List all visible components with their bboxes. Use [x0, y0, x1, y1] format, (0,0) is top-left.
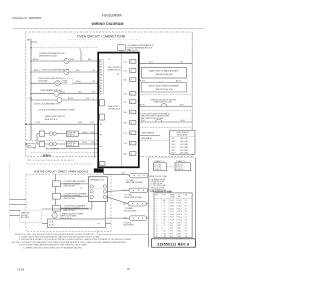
svg-text:P24-7: P24-7 [170, 217, 174, 219]
svg-text:P24-9: P24-9 [170, 222, 174, 224]
svg-text:W-41: W-41 [181, 120, 185, 122]
svg-text:N2: N2 [100, 91, 102, 93]
svg-text:W-2: W-2 [76, 70, 79, 72]
svg-text:P24-4: P24-4 [170, 208, 174, 210]
svg-text:Y-53: Y-53 [123, 203, 127, 205]
svg-text:TB-N: TB-N [178, 203, 182, 205]
svg-text:P9-4: P9-4 [170, 234, 173, 236]
junction [30, 47, 31, 48]
svg-text:13/18: 13/18 [17, 267, 24, 271]
svg-text:P5: P5 [100, 134, 102, 136]
svg-text:Y-52: Y-52 [123, 190, 127, 192]
svg-text:BK-7: BK-7 [88, 59, 92, 61]
svg-text:20: 20 [130, 154, 132, 156]
svg-text:K5: K5 [100, 72, 102, 74]
svg-text:BK-70: BK-70 [140, 105, 145, 107]
svg-text:(SEE NOTE 2): (SEE NOTE 2) [45, 119, 58, 121]
junction ticks on dashed edge [25, 123, 27, 125]
svg-text:P2: P2 [130, 61, 132, 63]
svg-text:120V 40W: 120V 40W [38, 81, 47, 83]
svg-text:- - - - -: - - - - - [158, 80, 163, 82]
wire dashed under title [68, 38, 140, 40]
svg-text:N1 P2 R3: N1 P2 R3 [176, 164, 183, 166]
dashed wire 2 [139, 110, 192, 112]
svg-text:4: 4 [93, 98, 94, 100]
chain wire [55, 174, 57, 213]
svg-text:G-33: G-33 [36, 122, 40, 124]
svg-text:3 P5: 3 P5 [92, 92, 96, 94]
broil element box [141, 83, 186, 92]
P24 connector box above control [118, 45, 125, 51]
svg-text:P24-2: P24-2 [170, 203, 174, 205]
svg-text:(SEE NOTE A) 3.3A: (SEE NOTE A) 3.3A [155, 73, 173, 76]
left lower connector boxes [100, 100, 105, 106]
svg-text:P24-5: P24-5 [170, 211, 174, 213]
svg-text:Y-54: Y-54 [123, 61, 126, 63]
svg-text:14: 14 [185, 203, 187, 205]
capsule connector 4 [129, 216, 146, 221]
svg-text:BK-2: BK-2 [28, 146, 32, 148]
svg-text:B4: B4 [100, 69, 102, 71]
wire from row6 down [94, 124, 96, 158]
inner spine [120, 54, 122, 167]
svg-text:18: 18 [130, 143, 132, 145]
svg-text:Y-54: Y-54 [124, 218, 128, 220]
svg-text:S1: S1 [100, 61, 102, 63]
svg-text:BU: BU [164, 231, 166, 233]
capsule connector 2 [129, 188, 148, 193]
svg-text:BK: BK [164, 200, 166, 202]
svg-text:SW-2: SW-2 [178, 228, 182, 230]
svg-text:BK/WH: BK/WH [43, 155, 51, 157]
dashed wire [139, 94, 192, 96]
svg-text:W-12: W-12 [76, 81, 80, 83]
svg-text:18: 18 [185, 211, 187, 213]
wire item3 to block [61, 207, 89, 209]
svg-text:5: 5 [156, 211, 157, 213]
svg-text:Publication No. 5995478979: Publication No. 5995478979 [13, 17, 43, 20]
svg-text:G7 H8 J9: G7 H8 J9 [154, 169, 161, 171]
wire row 4 [31, 93, 98, 95]
svg-text:6. SPARK IGNITION SWITCHES ON: 6. SPARK IGNITION SWITCHES ON TOP BURNER… [23, 246, 82, 249]
svg-text:BU-22: BU-22 [68, 98, 73, 100]
svg-text:N-2 W: N-2 W [49, 225, 54, 227]
svg-text:18: 18 [185, 236, 187, 238]
svg-text:1 P5: 1 P5 [92, 70, 96, 72]
bake circuit wire [139, 63, 192, 65]
svg-text:LOCK MOTOR SWITCH SHOWN LOCKED: LOCK MOTOR SWITCH SHOWN LOCKED [38, 110, 75, 112]
svg-text:LIGHT: LIGHT [62, 83, 67, 85]
svg-text:9: 9 [156, 222, 157, 224]
svg-text:FROM: FROM [170, 194, 175, 196]
svg-text:FGGS3045KF: FGGS3045KF [102, 14, 122, 18]
svg-text:BK-41: BK-41 [60, 92, 65, 94]
svg-text:P3: P3 [100, 124, 102, 126]
dashed option box [62, 79, 73, 85]
door switch branch [36, 134, 38, 144]
svg-text:Y-52: Y-52 [123, 71, 126, 73]
svg-text:P24-3: P24-3 [170, 206, 174, 208]
svg-text:6: 6 [156, 214, 157, 216]
svg-text:4: 4 [156, 208, 157, 210]
svg-text:P4: P4 [130, 71, 132, 73]
wire right edge emphasis [191, 32, 193, 157]
svg-text:G8: G8 [100, 80, 102, 82]
wire stub [31, 41, 37, 43]
surface ignitor 1 [53, 181, 61, 187]
svg-text:P7: P7 [100, 146, 102, 148]
svg-text:G-33: G-33 [78, 122, 82, 124]
main oven circuit dashed enclosure [26, 32, 193, 157]
bake element box [141, 67, 186, 78]
spark module box [48, 219, 106, 228]
svg-text:SW-3: SW-3 [178, 231, 182, 233]
svg-text:V7 W8 X9: V7 W8 X9 [176, 169, 183, 171]
wires to capsule connectors [104, 173, 128, 175]
wires below control board [103, 167, 105, 174]
svg-text:BU-1: BU-1 [123, 154, 127, 156]
wire row 2 [31, 71, 98, 73]
svg-text:BU: BU [164, 211, 166, 213]
surface ignitor 3 [53, 205, 61, 211]
switch S1 [37, 133, 98, 135]
svg-text:MODULE WIRE: MODULE WIRE [124, 210, 137, 212]
right pin boxes [130, 60, 136, 156]
svg-text:P24-8: P24-8 [170, 220, 174, 222]
svg-text:Y: Y [164, 228, 165, 230]
svg-text:WIRING DIAGRAM: WIRING DIAGRAM [91, 22, 123, 26]
short rows [139, 135, 160, 137]
svg-text:900 F: 900 F [172, 153, 176, 155]
svg-text:P6: P6 [130, 80, 132, 82]
svg-text:GN: GN [164, 214, 166, 216]
svg-text:P7: P7 [98, 224, 100, 226]
svg-text:OR-31: OR-31 [82, 142, 87, 144]
svg-text:11: 11 [156, 228, 158, 230]
svg-text:(SEE NOTE 6): (SEE NOTE 6) [64, 210, 76, 212]
pin number labels [123, 61, 132, 155]
wire left bus [30, 39, 32, 141]
lamp L1 [55, 81, 60, 86]
svg-text:SW-4: SW-4 [178, 234, 182, 236]
symbol row5 [57, 98, 62, 103]
svg-text:R-40: R-40 [141, 120, 145, 122]
wire boxlet to module [42, 223, 48, 225]
svg-text:16: 16 [130, 133, 132, 135]
svg-text:2697 OHM: 2697 OHM [180, 153, 188, 155]
svg-text:16: 16 [185, 206, 187, 208]
svg-text:14: 14 [130, 122, 132, 124]
dashed wire 3 [139, 126, 192, 128]
svg-text:GY-8: GY-8 [123, 143, 127, 145]
svg-text:BROIL IGNITOR BROIL BURNER: BROIL IGNITOR BROIL BURNER [149, 85, 180, 87]
svg-text:Y7: Y7 [100, 77, 102, 79]
svg-text:5 P9: 5 P9 [91, 142, 95, 144]
svg-text:5. DOOR SWITCHES ARE SHOWN WIT: 5. DOOR SWITCHES ARE SHOWN WITH THE OVEN… [19, 244, 88, 247]
wire row 6 [26, 123, 98, 125]
svg-text:DOOR LOCK ASSEMBLY P24: DOOR LOCK ASSEMBLY P24 [34, 103, 60, 106]
svg-text:OVEN SENSOR: OVEN SENSOR [141, 133, 155, 135]
svg-text:EOC-5: EOC-5 [178, 217, 183, 219]
wire item2 to block [61, 195, 89, 197]
svg-text:SW-5: SW-5 [178, 236, 182, 238]
wire module out [106, 223, 112, 225]
wire dashed feeder [31, 47, 98, 49]
svg-text:S4 T5 U6: S4 T5 U6 [176, 167, 183, 169]
svg-text:BU-3: BU-3 [123, 80, 127, 82]
svg-text:BOARD (EOC): BOARD (EOC) [108, 68, 121, 71]
svg-text:P9 1 - 2 - 3 - 4 - 5 - 6 - 7: P9 1 - 2 - 3 - 4 - 5 - 6 - 7 - 8 - 9 - 1… [28, 160, 74, 162]
motor M2 [64, 69, 69, 74]
svg-text:(SEE NOTE 6): (SEE NOTE 6) [64, 186, 76, 188]
svg-text:Y-54: Y-54 [127, 49, 131, 51]
svg-text:(SEE TABLE): (SEE TABLE) [141, 137, 152, 140]
svg-text:2237 OHM: 2237 OHM [180, 150, 188, 152]
internal dashed separator [26, 140, 98, 142]
svg-text:EOC-4: EOC-4 [178, 214, 183, 216]
svg-text:SW-1: SW-1 [178, 225, 182, 227]
svg-text:3: 3 [156, 206, 157, 208]
header rule [13, 28, 204, 29]
svg-text:R-67: R-67 [70, 59, 74, 61]
svg-text:GN: GN [164, 234, 166, 236]
svg-text:EOC-6: EOC-6 [178, 220, 183, 222]
svg-text:R3: R3 [100, 67, 102, 69]
svg-text:T4 T5 B6: T4 T5 B6 [154, 167, 161, 169]
svg-text:10: 10 [156, 225, 158, 227]
lists frame [148, 158, 150, 247]
svg-text:Y-54: Y-54 [149, 62, 153, 64]
svg-text:(SEE NOTE 6): (SEE NOTE 6) [64, 198, 76, 200]
svg-text:550 F: 550 F [172, 147, 176, 149]
svg-text:W-4: W-4 [78, 92, 81, 94]
svg-text:Y: Y [164, 208, 165, 210]
svg-text:1 P9: 1 P9 [90, 122, 94, 124]
left pin strip [100, 59, 104, 93]
svg-text:3 P9: 3 P9 [91, 132, 95, 134]
capsule exit wires [147, 175, 150, 177]
svg-text:W-75: W-75 [180, 105, 184, 107]
svg-text:13: 13 [156, 234, 158, 236]
svg-text:(NOTE 5): (NOTE 5) [67, 135, 75, 137]
svg-text:2 P5: 2 P5 [92, 81, 96, 83]
svg-text:P1: P1 [117, 74, 119, 76]
svg-text:8: 8 [156, 220, 157, 222]
svg-text:W-2: W-2 [123, 102, 126, 104]
svg-text:R-9: R-9 [86, 98, 89, 100]
svg-text:BAKE IGNITOR WIRE: BAKE IGNITOR WIRE [126, 181, 144, 184]
svg-text:14: 14 [185, 200, 187, 202]
svg-text:DSI MODULE: DSI MODULE [108, 109, 121, 111]
electronic oven control outline [98, 53, 139, 168]
svg-text:18: 18 [185, 234, 187, 236]
svg-text:W6: W6 [100, 75, 103, 77]
notes paragraph [12, 234, 132, 250]
wire L1 drop [80, 50, 82, 61]
surface ignitor 2 [53, 193, 61, 199]
motor M1 [64, 58, 69, 63]
svg-text:P9-1: P9-1 [170, 225, 173, 227]
svg-text:P9-2: P9-2 [170, 228, 173, 230]
svg-text:EOC-7: EOC-7 [178, 222, 183, 224]
connector label box [27, 144, 36, 148]
svg-text:G-2: G-2 [33, 147, 36, 149]
terminal block TB1 [88, 177, 107, 202]
surface ignitor 4 [52, 213, 57, 218]
part number box [152, 239, 196, 247]
wires bottom ignitor [42, 208, 92, 210]
svg-text:18: 18 [185, 214, 187, 216]
svg-text:18: 18 [185, 217, 187, 219]
svg-text:O2: O2 [100, 64, 102, 66]
wire row 5 [31, 99, 98, 101]
svg-text:18: 18 [185, 225, 187, 227]
svg-text:BK-64: BK-64 [33, 59, 38, 61]
wire row 1 [31, 60, 98, 62]
svg-text:318550111 REV:A: 318550111 REV:A [157, 242, 190, 246]
svg-text:1080 OHM: 1080 OHM [180, 138, 188, 140]
svg-text:BK: BK [164, 220, 166, 222]
wire block drops [91, 202, 93, 210]
svg-text:(SEE NOTE A) 3.3A: (SEE NOTE A) 3.3A [155, 88, 173, 91]
svg-text:Y-55: Y-55 [179, 62, 183, 64]
wire dashed row [31, 151, 98, 153]
svg-text:P9-5: P9-5 [170, 236, 173, 238]
wire row 3 [31, 82, 98, 84]
svg-text:BAKE IGNITOR BAKE BURNER: BAKE IGNITOR BAKE BURNER [149, 70, 179, 73]
svg-text:IGNITOR CIRCUIT / DIRECT SPARK: IGNITOR CIRCUIT / DIRECT SPARK MODULE [34, 170, 89, 173]
svg-text:12: 12 [130, 112, 132, 114]
svg-text:L1 L2 N3: L1 L2 N3 [154, 164, 161, 166]
svg-text:NOTE 1. DOOR LOCK MOTOR CIRCUI: NOTE 1. DOOR LOCK MOTOR CIRCUIT IS SHOWN… [15, 234, 94, 236]
svg-text:1654 OHM: 1654 OHM [180, 141, 188, 143]
svg-text:Y-77: Y-77 [28, 98, 32, 100]
svg-text:P24-6: P24-6 [170, 214, 174, 216]
rev strip line [97, 230, 99, 235]
left margin dashed [9, 163, 11, 229]
svg-text:B1: B1 [100, 88, 102, 90]
svg-text:350 F: 350 F [172, 141, 176, 143]
svg-text:TB-L1: TB-L1 [178, 200, 182, 202]
capsule connector 1 [130, 173, 149, 178]
svg-text:BU-14: BU-14 [140, 80, 145, 82]
svg-text:P9-3: P9-3 [170, 231, 173, 233]
wire sensor row [139, 121, 192, 123]
svg-text:P24-1: P24-1 [170, 200, 174, 202]
svg-text:Y-44: Y-44 [123, 133, 126, 135]
svg-text:2. OVEN LIGHT SWITCH IS SHOWN: 2. OVEN LIGHT SWITCH IS SHOWN IN THE OFF… [19, 237, 101, 239]
svg-text:10: 10 [130, 102, 132, 104]
svg-text:Y-51: Y-51 [122, 172, 126, 174]
wire item1 to block [61, 183, 89, 185]
svg-text:1: 1 [156, 200, 157, 202]
svg-text:3. DSI MODULE IS PART OF THE E: 3. DSI MODULE IS PART OF THE ELECTRONIC … [19, 238, 132, 241]
svg-text:BK/WH TO L1: BK/WH TO L1 [46, 149, 58, 151]
header black box [94, 168, 104, 172]
svg-text:BROIL IGNITOR WIRE: BROIL IGNITOR WIRE [124, 197, 142, 199]
svg-text:(NOTE 5): (NOTE 5) [67, 145, 75, 147]
svg-text:OVEN CIRCUIT / CABINET P24B: OVEN CIRCUIT / CABINET P24B [77, 35, 125, 39]
wire dashed [26, 163, 93, 165]
ignitor dashed enclosure [26, 174, 111, 231]
svg-text:650 F: 650 F [172, 150, 176, 152]
svg-text:EOC-2: EOC-2 [178, 208, 183, 210]
svg-text:U9: U9 [100, 83, 102, 85]
svg-text:EOC-3: EOC-3 [178, 211, 183, 213]
svg-text:OR-30: OR-30 [82, 132, 87, 134]
svg-text:2047 OHM: 2047 OHM [180, 147, 188, 149]
svg-text:18: 18 [185, 231, 187, 233]
svg-text:BK-55: BK-55 [34, 70, 39, 72]
svg-text:L1: L1 [80, 197, 82, 199]
svg-text:(SEE NOTE 4) 120V: (SEE NOTE 4) 120V [39, 56, 58, 58]
svg-text:OR-6: OR-6 [123, 122, 127, 124]
stubs [10, 199, 26, 201]
svg-text:WIRE COLOR CODE: WIRE COLOR CODE [150, 176, 168, 178]
svg-text:BK-9: BK-9 [123, 112, 127, 114]
svg-text:R-18: R-18 [123, 93, 127, 95]
svg-text:12: 12 [156, 231, 158, 233]
svg-text:18: 18 [185, 228, 187, 230]
svg-text:18: 18 [185, 222, 187, 224]
svg-text:1852 OHM: 1852 OHM [180, 144, 188, 146]
svg-text:LATCH WIRE: LATCH WIRE [123, 224, 134, 227]
svg-text:P8: P8 [130, 93, 132, 95]
svg-text:16: 16 [185, 208, 187, 210]
svg-text:18: 18 [185, 220, 187, 222]
spec table small [170, 130, 195, 154]
svg-text:BU-15: BU-15 [176, 80, 181, 82]
svg-text:RESISTANCE: RESISTANCE [177, 133, 189, 136]
svg-text:(NOTE) 4. CONVECTION FAN MOTOR: (NOTE) 4. CONVECTION FAN MOTOR IS USED O… [12, 241, 126, 244]
junction dots on bus [30, 60, 31, 100]
svg-text:7: 7 [156, 217, 157, 219]
svg-text:EOC-1: EOC-1 [178, 206, 183, 208]
svg-text:14: 14 [156, 236, 158, 238]
svg-text:2: 2 [156, 203, 157, 205]
spark switch dashed box [20, 210, 42, 223]
switch S2 [37, 143, 98, 145]
svg-text:450 F: 450 F [172, 144, 176, 146]
module symbol [54, 91, 59, 96]
capsule connector 3 [128, 202, 147, 207]
svg-text:(NOTE 6): (NOTE 6) [21, 215, 28, 217]
latch motor coil [161, 104, 167, 107]
svg-text:R0: R0 [100, 86, 102, 88]
wire [52, 148, 98, 150]
wire latch row [139, 106, 192, 108]
svg-text:70 F: 70 F [172, 138, 175, 140]
